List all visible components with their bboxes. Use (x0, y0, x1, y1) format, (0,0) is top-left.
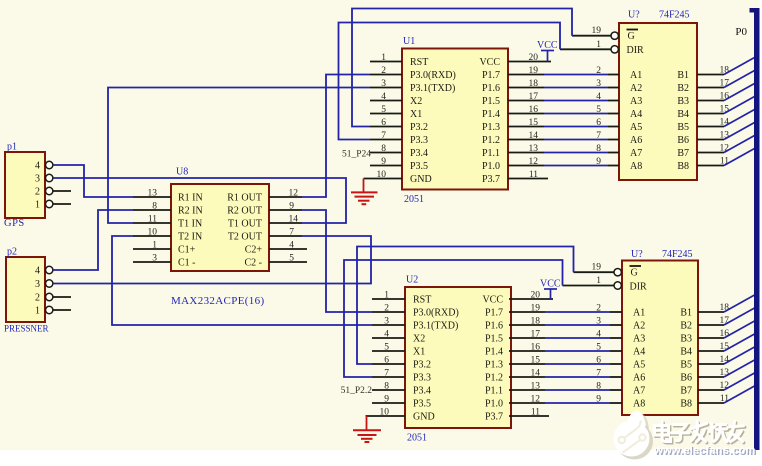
U1 left pin 10 stub (364, 170, 403, 180)
U2 left pin 4 stub (372, 330, 405, 340)
IC U8 MAX232 body (171, 167, 269, 308)
svg-text:10: 10 (148, 228, 158, 238)
svg-text:8: 8 (384, 382, 389, 392)
svg-text:GPS: GPS (4, 218, 25, 229)
svg-text:T2 IN: T2 IN (178, 232, 202, 243)
svg-text:3: 3 (381, 79, 386, 89)
svg-text:5: 5 (381, 105, 386, 115)
watermark url text (653, 445, 757, 458)
wire U2 P1.x to bottom 74F245 at y=312 (509, 311, 622, 313)
U2 VCC power symbol (540, 279, 561, 300)
svg-text:U1: U1 (403, 36, 415, 47)
74F245 y=23 B5 pin 14 stub and bus wire (697, 110, 755, 128)
U2 left pin 2 stub (372, 304, 405, 314)
svg-text:P1.1: P1.1 (485, 386, 503, 397)
svg-text:VCC: VCC (540, 279, 561, 290)
svg-text:3: 3 (35, 174, 40, 185)
svg-text:A8: A8 (633, 399, 645, 410)
wire U1 P3.2 to top 74F245 G (352, 9, 572, 127)
svg-text:G: G (631, 268, 638, 279)
U1 pin 11 P3.7 stub (508, 178, 548, 180)
U1 VCC power symbol (537, 40, 558, 62)
svg-text:A6: A6 (633, 373, 645, 384)
U8 left pin 13 stub (133, 189, 171, 199)
wire p1 pin3 to U8 T1OUT (53, 178, 346, 223)
svg-text:5: 5 (289, 254, 294, 264)
svg-text:B7: B7 (680, 386, 692, 397)
svg-text:P0: P0 (735, 26, 747, 38)
svg-text:B5: B5 (677, 122, 689, 133)
wire U2 P1.x to bottom 74F245 at y=325 (509, 324, 622, 326)
wire U1 P1.x to top 74F245 at y=113.5 (508, 113, 619, 115)
bottom 74F245 G stub wire (574, 271, 614, 273)
74F245 y=260.5 B4 pin 15 stub and bus wire (698, 334, 755, 352)
svg-text:P1.5: P1.5 (485, 334, 503, 345)
svg-text:2051: 2051 (407, 433, 427, 444)
U8 left pin 10 stub (133, 228, 171, 238)
IC 74F245 body at y=23 (619, 10, 697, 181)
svg-text:3: 3 (35, 279, 40, 290)
svg-text:12: 12 (289, 189, 299, 199)
svg-text:A7: A7 (630, 148, 642, 159)
svg-text:B6: B6 (680, 373, 692, 384)
svg-text:MAX232ACPE(16): MAX232ACPE(16) (171, 295, 265, 307)
svg-text:RST: RST (410, 57, 428, 68)
svg-text:P3.1(TXD): P3.1(TXD) (410, 83, 455, 94)
svg-text:1: 1 (35, 200, 40, 211)
svg-text:4: 4 (384, 330, 389, 340)
svg-text:7: 7 (381, 131, 386, 141)
U2 left pin 6 stub (372, 356, 405, 366)
connector p2 pin 1 stub (53, 309, 71, 311)
svg-text:P1.7: P1.7 (485, 308, 503, 319)
svg-text:A4: A4 (633, 347, 645, 358)
wire U1 P1.x to top 74F245 at y=74.5 (508, 74, 619, 76)
svg-text:B4: B4 (677, 109, 689, 120)
svg-text:10: 10 (380, 408, 390, 418)
top 74F245 G stub wire (572, 35, 611, 37)
svg-text:10: 10 (377, 170, 387, 180)
svg-text:B6: B6 (677, 135, 689, 146)
elecfans watermark logo (614, 411, 654, 460)
svg-text:P3.0(RXD): P3.0(RXD) (413, 308, 459, 319)
svg-text:A7: A7 (633, 386, 645, 397)
svg-text:P3.3: P3.3 (413, 373, 431, 384)
svg-text:DIR: DIR (627, 45, 645, 56)
wire U1 P1.x to top 74F245 at y=152.5 (508, 152, 619, 154)
wire U2 TXD to U8 T2IN (112, 236, 372, 325)
U2 left pin 3 stub (372, 317, 405, 327)
U2 left pin 7 stub (372, 369, 405, 379)
connector p2 (PRESSNER) (4, 247, 53, 334)
svg-text:R2 OUT: R2 OUT (227, 206, 262, 217)
wire U1 P1.x to top 74F245 at y=139.5 (508, 139, 619, 141)
svg-text:74F245: 74F245 (662, 249, 693, 260)
svg-text:P3.2: P3.2 (410, 122, 428, 133)
wire U1 P1.x to top 74F245 at y=87.5 (508, 87, 619, 89)
svg-text:A2: A2 (633, 321, 645, 332)
wire U8 R1OUT to U1 RXD (302, 75, 370, 198)
74F245 y=260.5 DIR pin 1 stub with bubble (596, 276, 621, 289)
svg-text:51_P24: 51_P24 (342, 150, 371, 160)
svg-text:P3.7: P3.7 (485, 412, 503, 423)
svg-text:B1: B1 (677, 70, 689, 81)
wire U1 P1.x to top 74F245 at y=126.5 (508, 126, 619, 128)
U2 left pin 10 stub (366, 408, 406, 418)
svg-text:U8: U8 (176, 167, 188, 178)
svg-text:P1.7: P1.7 (482, 70, 500, 81)
svg-text:B5: B5 (680, 360, 692, 371)
svg-text:C2+: C2+ (245, 245, 263, 256)
svg-text:C2 -: C2 - (245, 258, 263, 269)
wire U2 P3.3 to bottom 74F245 DIR (344, 260, 563, 377)
svg-text:4: 4 (35, 161, 40, 172)
wire U2 P1.x to bottom 74F245 at y=377 (509, 376, 622, 378)
svg-text:VCC: VCC (482, 295, 503, 306)
svg-text:B8: B8 (677, 161, 689, 172)
U1 left pin 5 stub (370, 105, 402, 115)
74F245 y=260.5 B2 pin 17 stub and bus wire (698, 308, 755, 326)
wire U8 R2OUT to U2 RXD (302, 210, 372, 312)
svg-text:B3: B3 (680, 334, 692, 345)
svg-text:X2: X2 (410, 96, 422, 107)
svg-text:74F245: 74F245 (659, 10, 690, 21)
svg-text:p1: p1 (7, 142, 17, 153)
svg-text:X2: X2 (413, 334, 425, 345)
U1 left pin 2 stub (370, 66, 402, 76)
svg-text:P3.4: P3.4 (410, 148, 428, 159)
svg-text:R1 OUT: R1 OUT (227, 193, 262, 204)
svg-text:A1: A1 (633, 308, 645, 319)
watermark chinese text dianzifashaoyou (655, 422, 745, 443)
svg-text:8: 8 (381, 144, 386, 154)
U2 left pin 5 stub (372, 343, 405, 353)
svg-text:7: 7 (289, 228, 294, 238)
svg-text:14: 14 (289, 215, 299, 225)
svg-text:A1: A1 (630, 70, 642, 81)
U2 pin 20 VCC stub (509, 298, 553, 300)
svg-text:A8: A8 (630, 161, 642, 172)
svg-text:C1+: C1+ (178, 245, 196, 256)
svg-text:A5: A5 (630, 122, 642, 133)
wire U1 P1.x to top 74F245 at y=100.5 (508, 100, 619, 102)
U8 right pin 14 stub (269, 215, 302, 225)
wire U2 P1.x to bottom 74F245 at y=403 (509, 402, 622, 404)
wire U2 P1.x to bottom 74F245 at y=390 (509, 389, 622, 391)
top 74F245 DIR stub wire (560, 48, 611, 50)
svg-text:X1: X1 (410, 109, 422, 120)
74F245 y=260.5 B6 pin 13 stub and bus wire (698, 360, 755, 378)
svg-text:P3.3: P3.3 (410, 135, 428, 146)
svg-text:1: 1 (596, 276, 601, 286)
svg-text:G: G (628, 31, 635, 42)
P0 bus bar (750, 8, 760, 450)
wire U2 P1.x to bottom 74F245 at y=364 (509, 363, 622, 365)
svg-text:1: 1 (35, 306, 40, 317)
U1 left pin 7 stub (370, 131, 402, 141)
svg-text:B4: B4 (680, 347, 692, 358)
svg-text:P1.0: P1.0 (485, 399, 503, 410)
svg-text:VCC: VCC (479, 57, 500, 68)
svg-text:B2: B2 (680, 321, 692, 332)
svg-text:P3.5: P3.5 (413, 399, 431, 410)
bottom 74F245 DIR stub wire (563, 285, 614, 287)
U2 left pin 9 stub (372, 395, 405, 405)
U8 right pin 5 stub (269, 254, 307, 264)
74F245 y=23 B6 pin 13 stub and bus wire (697, 123, 755, 141)
svg-text:U?: U? (631, 249, 643, 260)
U1 left pin 1 stub (370, 53, 402, 63)
svg-text:T1 IN: T1 IN (178, 219, 202, 230)
U8 right pin 7 stub (269, 228, 302, 238)
svg-text:7: 7 (384, 369, 389, 379)
svg-text:P3.2: P3.2 (413, 360, 431, 371)
wire U2 P1.x to bottom 74F245 at y=338 (509, 337, 622, 339)
74F245 y=260.5 B8 pin 11 stub and bus wire (698, 386, 755, 404)
svg-text:VCC: VCC (537, 40, 558, 51)
svg-text:PRESSNER: PRESSNER (4, 324, 49, 334)
U8 left pin 8 stub (133, 202, 171, 212)
svg-text:A4: A4 (630, 109, 642, 120)
74F245 y=23 B3 pin 16 stub and bus wire (697, 84, 755, 102)
svg-text:1: 1 (152, 241, 157, 251)
U2 pin 11 P3.7 stub (509, 415, 549, 417)
wire U1 P1.x to top 74F245 at y=165.5 (508, 165, 619, 167)
svg-text:P1.5: P1.5 (482, 96, 500, 107)
svg-text:6: 6 (381, 118, 386, 128)
svg-text:1: 1 (384, 291, 389, 301)
ground symbol at U1 GND (351, 179, 378, 205)
svg-text:B1: B1 (680, 308, 692, 319)
svg-text:9: 9 (384, 395, 389, 405)
svg-text:2: 2 (35, 187, 40, 198)
svg-text:P1.4: P1.4 (482, 109, 500, 120)
svg-text:2051: 2051 (404, 194, 424, 205)
74F245 y=23 B2 pin 17 stub and bus wire (697, 71, 755, 89)
IC U1 2051 body (402, 36, 508, 205)
74F245 y=23 B8 pin 11 stub and bus wire (697, 149, 755, 167)
svg-text:T1 OUT: T1 OUT (228, 219, 262, 230)
svg-text:p2: p2 (7, 247, 17, 258)
74F245 y=260.5 B5 pin 14 stub and bus wire (698, 347, 755, 365)
svg-text:P3.0(RXD): P3.0(RXD) (410, 70, 456, 81)
wire U1 P3.3 to top 74F245 DIR (339, 23, 561, 140)
connector p2 pin 2 stub (53, 296, 71, 298)
svg-text:2: 2 (384, 304, 389, 314)
svg-text:2: 2 (35, 293, 40, 304)
U2 left pin 1 stub (372, 291, 405, 301)
U8 right pin 12 stub (269, 189, 302, 199)
U8 left pin 1 stub (133, 241, 171, 251)
svg-text:R1 IN: R1 IN (178, 193, 203, 204)
svg-text:B8: B8 (680, 399, 692, 410)
U8 left pin 11 stub (133, 215, 171, 225)
svg-text:A3: A3 (630, 96, 642, 107)
svg-text:P1.6: P1.6 (485, 321, 503, 332)
U8 right pin 9 stub (269, 202, 302, 212)
svg-text:B2: B2 (677, 83, 689, 94)
svg-text:C1 -: C1 - (178, 258, 196, 269)
wire U2 P3.2 to bottom 74F245 G (357, 247, 574, 365)
wire U8 T2OUT to p2 pin3 (53, 236, 371, 284)
svg-text:P3.7: P3.7 (482, 174, 500, 185)
svg-text:9: 9 (381, 157, 386, 167)
svg-text:U2: U2 (406, 275, 418, 286)
U1 left pin 9 stub (370, 157, 402, 167)
wire p2 pin4 to U8 R2IN (53, 210, 133, 270)
74F245 y=260.5 G pin 19 stub with bubble (592, 263, 622, 276)
74F245 y=23 B4 pin 15 stub and bus wire (697, 97, 755, 115)
U1 pin 20 VCC stub (508, 61, 551, 63)
svg-text:P1.2: P1.2 (485, 373, 503, 384)
svg-text:A3: A3 (633, 334, 645, 345)
ground symbol at U2 GND (353, 416, 381, 442)
svg-text:P3.5: P3.5 (410, 161, 428, 172)
svg-text:GND: GND (410, 174, 432, 185)
svg-text:T2 OUT: T2 OUT (228, 232, 262, 243)
svg-text:P1.4: P1.4 (485, 347, 503, 358)
svg-text:P3.1(TXD): P3.1(TXD) (413, 321, 458, 332)
svg-text:8: 8 (152, 202, 157, 212)
connector p1 pin 2 stub (53, 190, 71, 192)
svg-text:19: 19 (592, 26, 602, 36)
svg-text:B7: B7 (677, 148, 689, 159)
U8 left pin 3 stub (133, 254, 171, 264)
wire p1 pin4 to U8 R1IN (53, 165, 133, 197)
74F245 y=23 B1 pin 18 stub and bus wire (697, 58, 755, 76)
svg-text:P3.4: P3.4 (413, 386, 431, 397)
connector p1 (GPS) (4, 142, 53, 230)
svg-text:P1.2: P1.2 (482, 135, 500, 146)
svg-text:11: 11 (148, 215, 157, 225)
svg-text:19: 19 (592, 263, 602, 273)
svg-text:RST: RST (413, 295, 431, 306)
svg-text:DIR: DIR (630, 281, 648, 292)
svg-text:51_P2.2: 51_P2.2 (341, 386, 373, 396)
svg-text:P1.0: P1.0 (482, 161, 500, 172)
svg-text:1: 1 (381, 53, 386, 63)
svg-text:U?: U? (628, 10, 640, 21)
svg-text:P1.3: P1.3 (482, 122, 500, 133)
74F245 y=23 G pin 19 stub with bubble (592, 26, 619, 39)
U2 left pin 8 stub (372, 382, 405, 392)
wire U2 P1.x to bottom 74F245 at y=351 (509, 350, 622, 352)
U8 right pin 4 stub (269, 241, 307, 251)
IC 74F245 body at y=260.5 (622, 249, 698, 415)
74F245 y=260.5 B3 pin 16 stub and bus wire (698, 321, 755, 339)
svg-text:4: 4 (35, 266, 40, 277)
svg-text:9: 9 (289, 202, 294, 212)
svg-text:2: 2 (381, 66, 386, 76)
svg-text:A6: A6 (630, 135, 642, 146)
svg-text:A5: A5 (633, 360, 645, 371)
svg-text:6: 6 (384, 356, 389, 366)
svg-text:P1.1: P1.1 (482, 148, 500, 159)
74F245 y=23 DIR pin 1 stub with bubble (596, 40, 618, 53)
svg-text:1: 1 (596, 40, 601, 50)
wire U1 TXD to U8 T1IN (108, 88, 370, 224)
U1 left pin 3 stub (370, 79, 402, 89)
svg-text:4: 4 (289, 241, 294, 251)
svg-text:3: 3 (152, 254, 157, 264)
svg-text:B3: B3 (677, 96, 689, 107)
svg-text:13: 13 (148, 189, 158, 199)
U1 left pin 4 stub (370, 92, 402, 102)
74F245 y=23 B7 pin 12 stub and bus wire (697, 136, 755, 154)
U1 left pin 6 stub (370, 118, 402, 128)
svg-text:P1.6: P1.6 (482, 83, 500, 94)
svg-text:5: 5 (384, 343, 389, 353)
svg-text:www.elecfans.com: www.elecfans.com (653, 445, 755, 457)
svg-text:GND: GND (413, 412, 435, 423)
svg-text:R2 IN: R2 IN (178, 206, 203, 217)
svg-text:A2: A2 (630, 83, 642, 94)
svg-text:4: 4 (381, 92, 386, 102)
svg-text:3: 3 (384, 317, 389, 327)
svg-text:X1: X1 (413, 347, 425, 358)
74F245 y=260.5 B1 pin 18 stub and bus wire (698, 295, 755, 313)
IC U2 2051 body (405, 275, 511, 444)
connector p1 pin 1 stub (53, 203, 71, 205)
svg-text:P1.3: P1.3 (485, 360, 503, 371)
U1 left pin 8 stub (370, 144, 402, 154)
74F245 y=260.5 B7 pin 12 stub and bus wire (698, 373, 755, 391)
